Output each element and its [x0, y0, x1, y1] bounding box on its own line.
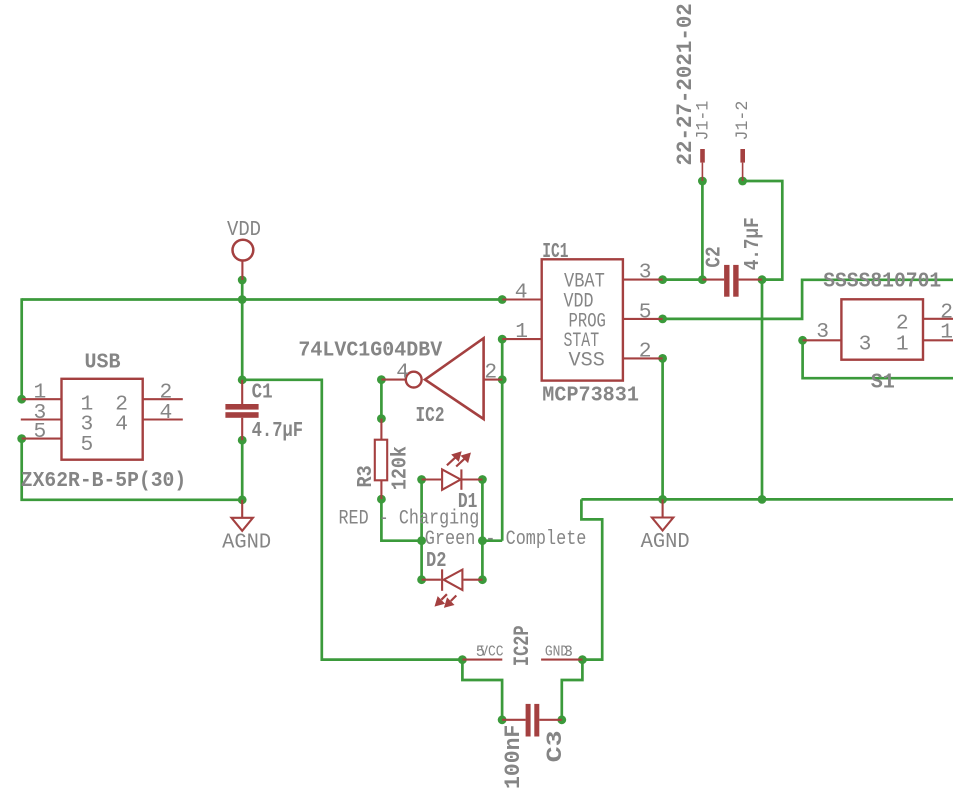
svg-text:VCC: VCC	[480, 644, 503, 661]
svg-text:D2: D2	[426, 549, 447, 573]
svg-text:MCP73831: MCP73831	[542, 384, 639, 408]
svg-text:AGND: AGND	[222, 531, 271, 555]
svg-text:USB: USB	[85, 351, 121, 375]
svg-text:IC1: IC1	[542, 240, 568, 264]
svg-text:100nF: 100nF	[501, 725, 526, 789]
svg-text:4: 4	[160, 401, 173, 425]
svg-text:5: 5	[639, 300, 652, 324]
svg-text:74LVC1G04DBV: 74LVC1G04DBV	[298, 338, 442, 362]
svg-text:4: 4	[115, 413, 128, 437]
svg-text:AGND: AGND	[641, 530, 690, 554]
svg-text:S1: S1	[871, 371, 895, 395]
svg-text:IC2: IC2	[416, 404, 445, 428]
svg-text:4.7µF: 4.7µF	[741, 217, 765, 270]
svg-text:2: 2	[484, 361, 497, 385]
svg-text:3: 3	[816, 320, 829, 344]
svg-text:2: 2	[639, 340, 652, 364]
svg-text:Green - Complete: Green - Complete	[425, 528, 587, 551]
svg-text:4.7µF: 4.7µF	[252, 419, 304, 443]
svg-text:C1: C1	[252, 380, 273, 404]
svg-text:ZX62R-B-5P(30): ZX62R-B-5P(30)	[21, 469, 186, 493]
svg-text:C3: C3	[543, 730, 568, 762]
svg-text:1: 1	[515, 320, 528, 344]
svg-text:R3: R3	[354, 465, 378, 487]
svg-text:1: 1	[940, 321, 953, 345]
svg-text:J1-1: J1-1	[693, 101, 713, 141]
svg-text:4: 4	[515, 280, 528, 304]
svg-text:3: 3	[564, 643, 573, 661]
svg-text:VDD: VDD	[227, 218, 261, 242]
svg-text:3: 3	[639, 261, 652, 285]
svg-text:RED - Charging: RED - Charging	[339, 508, 480, 531]
svg-text:3: 3	[859, 333, 872, 357]
svg-text:5: 5	[34, 420, 47, 444]
svg-text:C2: C2	[702, 246, 726, 267]
svg-text:4: 4	[396, 361, 409, 385]
svg-text:VSS: VSS	[569, 349, 605, 372]
svg-text:5: 5	[81, 433, 94, 457]
svg-text:J1-2: J1-2	[733, 101, 753, 141]
svg-text:SSSS810701: SSSS810701	[823, 270, 941, 294]
svg-text:IC2P: IC2P	[510, 625, 535, 666]
svg-text:1: 1	[896, 333, 909, 357]
svg-text:120k: 120k	[388, 446, 412, 490]
